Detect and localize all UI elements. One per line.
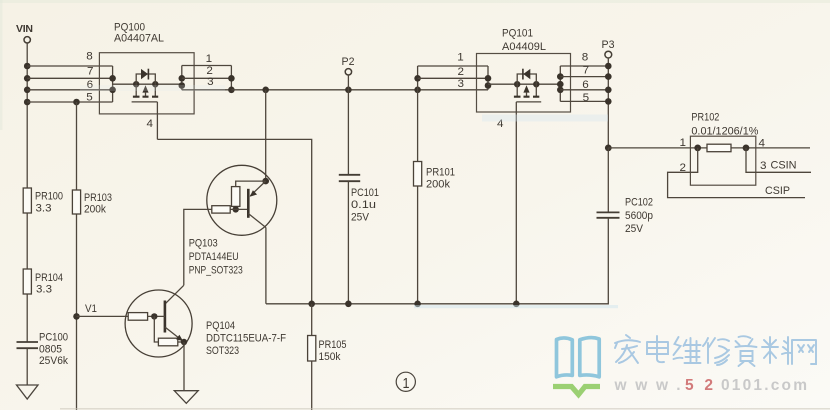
svg-text:A04409L: A04409L: [502, 41, 546, 53]
svg-text:P3: P3: [602, 39, 615, 51]
node junction bus-PQ103: [262, 87, 269, 94]
svg-text:25V: 25V: [625, 223, 644, 235]
svg-text:PC100: PC100: [39, 332, 68, 344]
svg-text:2: 2: [458, 66, 465, 78]
svg-text:4: 4: [759, 138, 766, 150]
resistor PR102 body: [707, 144, 731, 152]
wire PQ104 emitter to ground: [183, 342, 185, 391]
node junction VIN-pin6: [24, 87, 31, 94]
svg-text:PC101: PC101: [351, 187, 379, 199]
svg-text:CSIN: CSIN: [771, 160, 797, 172]
wire PQ100 pin2 horizontal: [182, 77, 232, 79]
wire PQ100 pin1 horizontal: [182, 65, 232, 67]
transistor PQ104 emitter line with arrow: [165, 327, 183, 341]
node PQ100 drain link dot lower: [179, 82, 186, 89]
wire PC102 stem upper: [607, 148, 609, 213]
node junction bus2-PC101: [345, 301, 352, 308]
resistor PR105: [308, 336, 347, 364]
wire pin6 horizontal: [27, 89, 112, 91]
node junction pin3 tie: [228, 87, 235, 94]
node junction P3-pin5: [605, 98, 612, 105]
MOSFET package PQ101 outline box: [477, 54, 571, 113]
transistor PQ103 base bar: [247, 189, 250, 218]
node PQ103 base node dot: [233, 206, 239, 212]
wire PQ100 gate lead pin4: [156, 102, 158, 139]
wire VIN rail vertical: [26, 43, 28, 342]
ground symbol left: [17, 385, 39, 399]
wire PR101 branch vertical: [417, 66, 419, 304]
node junction bus2-PR101: [414, 301, 421, 308]
svg-text:A04407AL: A04407AL: [114, 33, 164, 45]
node PQ101 drain link dot upper: [485, 75, 492, 82]
wire PQ100 drain link vertical: [181, 66, 183, 90]
capacitor PC100: [17, 332, 69, 368]
wire PQ100 channel horizontal: [136, 83, 182, 85]
svg-text:6: 6: [582, 79, 589, 91]
svg-text:3: 3: [458, 78, 465, 90]
wire PR102 pin2 CSIP run: [668, 148, 805, 198]
svg-text:0101.com: 0101.com: [721, 377, 807, 394]
wire PQ101 body diode loop: [517, 74, 536, 84]
wire PC102 stem lower joining bottom bus: [266, 218, 608, 304]
svg-text:7: 7: [583, 64, 590, 76]
wire PQ104 R1 to base node: [148, 315, 165, 317]
wire PQ103 R2 to base node: [235, 206, 237, 209]
svg-text:7: 7: [87, 66, 94, 78]
node PQ101 drain dot: [514, 81, 520, 87]
svg-text:PNP_SOT323: PNP_SOT323: [189, 265, 243, 277]
svg-text:1: 1: [457, 51, 464, 63]
svg-text:1: 1: [206, 53, 213, 65]
wire PQ101 pin2 horizontal: [418, 77, 488, 79]
svg-text:PQ101: PQ101: [502, 28, 533, 40]
wire PQ101 pin7 horizontal: [560, 76, 608, 78]
wire PQ101 source tie vertical: [559, 66, 561, 101]
wire PQ100 body diode loop: [136, 74, 155, 84]
node junction bus-P2: [345, 87, 352, 94]
transistor PQ104 collector line: [165, 285, 184, 304]
wire PQ103 R1 to base node: [230, 208, 248, 210]
wire PQ101 pin8 horizontal: [560, 65, 608, 67]
wire PQ104 base node down to R2: [154, 316, 158, 342]
node junction PQ100 pin7 tie: [109, 75, 116, 82]
watermark chinese characters 家电维修资料网: [615, 335, 816, 366]
svg-text:3: 3: [760, 160, 767, 172]
node PQ104 emitter node dot: [181, 339, 187, 345]
node PQ101 drain link dot lower: [485, 82, 492, 89]
svg-text:8: 8: [582, 51, 589, 63]
svg-text:PQ103: PQ103: [189, 238, 218, 250]
wire PQ100 gate bar: [132, 101, 158, 103]
svg-text:1: 1: [403, 375, 410, 392]
node PQ100 drain dot: [152, 81, 158, 87]
svg-text:5: 5: [86, 91, 93, 103]
node junction bus2-PQ101 gate: [513, 301, 520, 308]
svg-text:PDTA144EU: PDTA144EU: [189, 251, 239, 263]
wire PQ101 drain leg: [516, 84, 518, 97]
node PQ101 source dot: [533, 81, 539, 87]
transistor PQ103 labels: [189, 238, 243, 277]
wire PQ100 pin3 horizontal: [182, 89, 232, 91]
transistor PQ103 circle: [207, 165, 277, 235]
wire PQ101 pin1 horizontal: [418, 65, 488, 67]
resistor PR103: [72, 190, 112, 216]
svg-text:3.3: 3.3: [36, 284, 52, 296]
resistor PR100: [23, 188, 63, 215]
wire PC100 to ground: [26, 348, 28, 385]
transistor PQ104 labels: [206, 320, 286, 357]
node VIN terminal circle: [24, 37, 30, 43]
transistor PQ103 collector line: [248, 214, 266, 228]
diode PQ100 body diode: [141, 69, 148, 80]
resistor PR104: [23, 269, 63, 296]
wire PR105 branch vertical: [311, 304, 313, 410]
svg-text:CSIP: CSIP: [765, 185, 790, 197]
MOSFET package PQ100 outline box: [99, 53, 194, 114]
transistor PQ100 substrate arrow: [142, 85, 148, 96]
wire pin8 horizontal: [27, 65, 112, 67]
node PQ104 base node dot: [151, 313, 157, 319]
node junction PQ101 pin7 tie: [557, 73, 564, 80]
node PQ100 drain link dot upper: [179, 75, 186, 82]
node junction PR102 pin3/4: [743, 145, 750, 152]
svg-text:PR103: PR103: [84, 192, 112, 204]
node junction VIN-pin8: [24, 63, 31, 70]
wire P3 rail vertical: [607, 58, 609, 148]
svg-text:PR100: PR100: [35, 191, 63, 203]
wire PQ100 source stub: [113, 83, 137, 85]
watermark book icon green base: [553, 387, 600, 395]
node P2 terminal circle: [345, 69, 351, 75]
node junction PQ101 source stub tie: [557, 81, 564, 88]
svg-text:SOT323: SOT323: [206, 345, 239, 357]
wire PQ100 source leg: [135, 84, 137, 97]
transistor PQ101 channel bars: [514, 96, 539, 98]
wire PR102 pin3 CSIN run: [746, 148, 811, 172]
wire bus to PQ103 emitter vertical: [265, 90, 267, 181]
wire main top bus: [231, 89, 488, 91]
svg-text:150k: 150k: [319, 351, 341, 363]
diode PQ101 body diode: [523, 69, 530, 80]
ground symbol PQ104: [174, 391, 198, 404]
svg-text:25V6k: 25V6k: [39, 355, 68, 367]
wire PQ100 drain leg: [154, 84, 156, 97]
svg-text:V1: V1: [85, 303, 97, 315]
svg-text:PR102: PR102: [691, 112, 719, 124]
node junction P3-pin6: [605, 87, 612, 94]
resistor PQ103 internal R1 horizontal: [212, 206, 230, 213]
svg-text:4: 4: [147, 118, 154, 130]
transistor PQ100 channel bars: [133, 96, 158, 98]
transistor PQ104 circle: [125, 290, 192, 357]
resistor PQ104 internal R2 horizontal: [158, 338, 177, 346]
node junction PQ101 pin2 tie left: [414, 75, 421, 82]
svg-text:3.3: 3.3: [36, 203, 52, 215]
node junction bus2-pin4run/PR105: [308, 301, 315, 308]
node junction V1: [73, 313, 80, 320]
svg-text:P2: P2: [342, 56, 355, 68]
node junction PQ101 pin6 tie: [557, 87, 564, 94]
capacitor PC101: [339, 175, 379, 224]
node junction P3 rail to PR102/PC102: [605, 145, 612, 152]
node junction VIN-pin7: [24, 75, 31, 82]
svg-text:0805: 0805: [39, 344, 62, 356]
wire PQ101 gate lead pin4 down to bus: [515, 102, 517, 304]
wire PQ100 internal source tie vertical: [112, 66, 114, 102]
node junction pin5-PR103: [73, 99, 80, 106]
wire current sense main horizontal: [608, 147, 810, 149]
svg-text:PR105: PR105: [319, 339, 347, 351]
node PQ100 source dot: [133, 81, 139, 87]
resistor PQ104 internal R1 horizontal: [128, 313, 147, 321]
node junction PR102 pin1/2: [694, 145, 701, 152]
transistor PQ103 emitter line with arrow: [250, 181, 266, 197]
node sheet reference circled 1: [396, 372, 415, 392]
wire V1 to PQ104 base resistor: [77, 315, 129, 317]
svg-text:5600p: 5600p: [625, 210, 653, 222]
wire PQ103 collector drop to bus corner: [265, 228, 267, 304]
svg-text:8: 8: [86, 50, 93, 62]
node junction bus-PR101: [414, 87, 421, 94]
node junction P3-pin7: [605, 73, 612, 80]
wire PR103 branch vertical: [76, 102, 78, 410]
wire pin4 run to bottom bus: [157, 139, 311, 303]
wire pin7 horizontal: [27, 77, 112, 79]
wire PQ101 pin5 horizontal: [560, 100, 608, 102]
node junction PQ103 emitter: [262, 178, 269, 185]
svg-text:200k: 200k: [426, 179, 450, 191]
svg-text:0.1u: 0.1u: [351, 199, 376, 211]
svg-text:DDTC115EUA-7-F: DDTC115EUA-7-F: [206, 333, 286, 345]
transistor PQ104 base bar: [164, 301, 167, 333]
node P3 terminal circle: [605, 51, 612, 58]
resistor PQ103 internal R2 vertical: [232, 187, 240, 207]
resistor PR101: [414, 162, 456, 191]
wire PQ103 internal emitter-resistor link: [236, 181, 266, 187]
wire PQ101 source leg: [535, 84, 537, 97]
svg-text:25V: 25V: [351, 212, 370, 224]
node junction P3-pin8: [605, 63, 612, 70]
svg-text:PC102: PC102: [625, 197, 653, 209]
svg-text:VIN: VIN: [16, 23, 33, 35]
svg-text:PR104: PR104: [35, 272, 63, 284]
wire PQ101 input tie vertical: [487, 66, 489, 90]
wire PQ100 output tie vertical: [230, 66, 232, 90]
svg-text:1: 1: [680, 137, 687, 149]
wire PQ104 R2 to emitter node: [178, 341, 184, 343]
wire PQ101 pin6 horizontal: [560, 89, 608, 91]
wire PQ101 channel horizontal: [517, 83, 560, 85]
wire pin5 horizontal: [27, 101, 112, 103]
node junction pin2 tie: [228, 75, 235, 82]
transistor PQ101 substrate arrow: [523, 85, 529, 96]
wire PQ103 input run from R1 left: [184, 209, 212, 285]
resistor PR102 package outline box: [690, 136, 755, 185]
node junction PQ100 pin6 tie: [109, 87, 116, 94]
capacitor PC102: [597, 197, 654, 236]
watermark url www.520101.com: [614, 377, 808, 394]
wire PQ101 gate bar: [516, 101, 541, 103]
svg-text:PR101: PR101: [426, 167, 455, 179]
svg-text:PQ104: PQ104: [206, 320, 235, 332]
watermark book icon pages: [557, 338, 600, 377]
wire P2 stem down to PC101: [347, 75, 349, 175]
wire PC101 down to bottom bus: [347, 181, 349, 304]
wire PQ101 drain stub: [488, 83, 517, 85]
node junction VIN-pin5: [24, 99, 31, 106]
svg-text:200k: 200k: [84, 204, 106, 216]
svg-text:5: 5: [583, 92, 590, 104]
